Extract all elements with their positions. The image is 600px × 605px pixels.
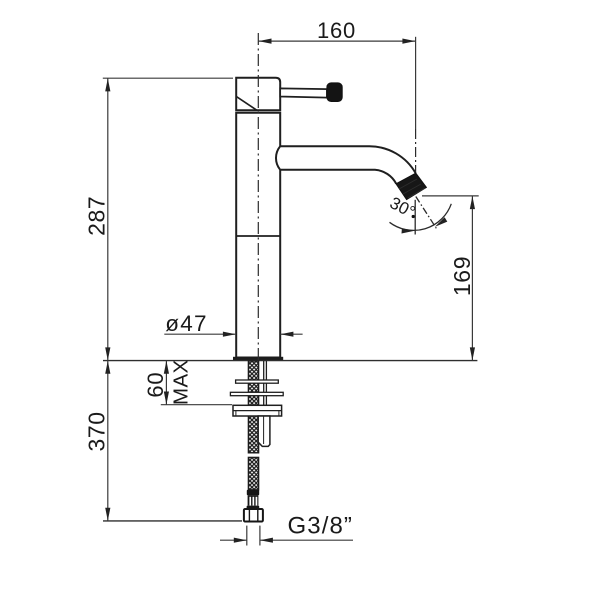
extension centerline to aerator	[415, 129, 417, 172]
bottom reference line	[103, 520, 242, 522]
dimension 60 text	[143, 372, 168, 398]
dimension 160 line	[258, 39, 415, 44]
dimension 287 text	[83, 196, 109, 236]
dimension 169 text	[449, 256, 475, 296]
dimension 370 text	[83, 411, 109, 451]
body centerline	[257, 33, 259, 360]
washer bar 2	[230, 392, 283, 395]
braided hose lower segment	[248, 457, 258, 489]
spout outer curve	[281, 146, 416, 173]
horseshoe washer plate	[233, 405, 282, 416]
dimension 60 MAX extension bottom line	[161, 404, 232, 406]
dimension d47 text	[165, 311, 208, 336]
svg-text:ø47: ø47	[165, 311, 208, 336]
svg-text:G3/8”: G3/8”	[288, 513, 354, 540]
angle tilted axis line	[416, 197, 437, 229]
threaded mounting rod	[264, 361, 267, 405]
angle arc	[390, 204, 452, 234]
dimension 60 MAX line	[164, 361, 169, 405]
dimension 287 extension top line	[103, 77, 233, 79]
mounting nut sleeve	[258, 416, 270, 446]
faucet cap (handle housing)	[236, 78, 280, 111]
dimension d47 leader right	[280, 332, 302, 337]
svg-text:169: 169	[449, 256, 475, 296]
collar lower band	[247, 506, 260, 509]
base flange	[233, 357, 282, 360]
angle vertex dot	[412, 215, 415, 218]
dimension MAX text	[170, 359, 193, 405]
countertop line	[103, 360, 477, 362]
svg-text:MAX: MAX	[170, 359, 193, 405]
angle reference vertical line	[414, 200, 416, 235]
dimension 160 text	[317, 18, 356, 43]
dimension G3/8 line	[220, 538, 353, 543]
dimension 169 extension top line	[422, 195, 479, 197]
dimension 287 line	[105, 78, 110, 360]
knurled collar	[248, 495, 259, 505]
svg-text:370: 370	[83, 411, 109, 451]
faucet body	[236, 113, 280, 358]
washer bar 1	[236, 380, 279, 383]
hose crimp band	[247, 490, 259, 495]
dimension G3/8 text	[288, 513, 354, 540]
handle lever	[280, 88, 327, 97]
angle 30 text	[387, 193, 419, 222]
cap diagonal joint line	[237, 97, 257, 111]
G3/8 hex nut	[244, 509, 263, 522]
aerator	[396, 173, 426, 199]
dimension d47 leader left	[164, 332, 236, 337]
extension line right of 160 (solid)	[415, 37, 417, 129]
dimension 370 line	[105, 361, 110, 521]
svg-text:60: 60	[143, 372, 168, 398]
svg-text:287: 287	[83, 196, 109, 236]
handle knob	[327, 83, 342, 102]
spout inner curve	[281, 170, 396, 184]
svg-text:160: 160	[317, 18, 356, 43]
dimension G3/8 extension lines	[247, 526, 260, 546]
braided hose upper segment	[248, 361, 258, 453]
body joint line	[236, 235, 280, 237]
dimension 169 line	[470, 196, 475, 361]
